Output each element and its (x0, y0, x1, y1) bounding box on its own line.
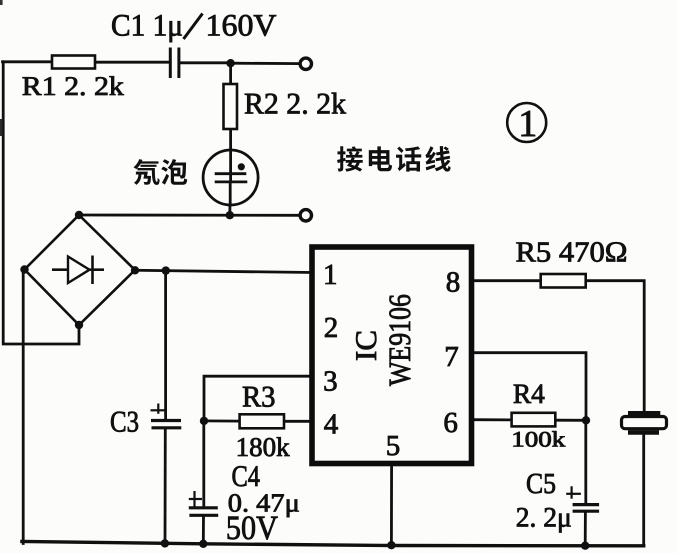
resistor R2 body (224, 84, 238, 129)
wire node D down to C4 (202, 421, 205, 507)
wire C5 to bottom rail (584, 512, 587, 546)
scan speck left margin (0, 119, 2, 136)
wire bridge top vertex to node B and lower terminal (79, 214, 300, 217)
junction dot rail at C4 (199, 540, 207, 548)
junction dot node C (pin1/C3) (162, 266, 170, 274)
wire R5 right to corner and down to microphone (586, 281, 645, 412)
svg-text:R5 470Ω: R5 470Ω (516, 237, 628, 269)
svg-text:5: 5 (386, 430, 401, 462)
terminal circle upper (phone line) (300, 58, 311, 69)
capacitor C5 plates and polarity (566, 486, 599, 511)
junction dot bridge left vertex (20, 265, 28, 273)
resistor R4 body (512, 413, 556, 427)
svg-text:IC: IC (350, 330, 383, 361)
junction dot rail at C3 (161, 539, 169, 547)
resistor R3 body (240, 414, 284, 428)
svg-text:2: 2 (324, 312, 339, 344)
svg-text:4: 4 (324, 409, 339, 441)
wire IC pin 7 right and down to node E (473, 353, 586, 421)
junction dot node E (R4/C5) (582, 416, 590, 424)
neon bulb symbol (203, 150, 258, 205)
wire R4 to node E (555, 419, 586, 422)
wire IC pin 3 left and down to node D (204, 376, 312, 421)
capacitor C1 label slash (184, 14, 203, 40)
svg-text:6: 6 (443, 407, 458, 439)
wire IC pin 8 to R5 (473, 279, 541, 282)
resistor R1 body (52, 56, 95, 69)
wire C4 to bottom rail (202, 517, 205, 544)
svg-text:1: 1 (323, 259, 338, 291)
junction dot node D (R3/C4) (200, 417, 208, 425)
svg-text:R3: R3 (242, 381, 276, 414)
svg-text:8: 8 (446, 266, 461, 298)
svg-text:C5: C5 (526, 468, 556, 500)
junction dot bridge top vertex (75, 211, 83, 219)
wire IC pin 5 to bottom rail (390, 461, 393, 546)
wire bridge right vertex to IC pin 1 (135, 270, 312, 272)
junction dot node A (C1/R2) (226, 59, 234, 67)
bridge rectifier diamond (25, 215, 136, 325)
wire neon bulb bottom to node B (228, 204, 231, 215)
svg-text:R2 2. 2k: R2 2. 2k (244, 88, 346, 121)
wire bottom ground rail (22, 541, 644, 545)
junction dot rail at pin5 (387, 541, 395, 549)
wire node C down to C3 (164, 271, 167, 420)
wire bridge left vertex down to bottom rail (22, 270, 25, 544)
wire R1 to C1 left plate (95, 61, 169, 64)
junction dot rail at C5 (581, 542, 589, 550)
junction dot node B (neon/line) (226, 211, 234, 219)
scan speck top-left corner (0, 0, 3, 5)
electret microphone / receiver symbol (622, 413, 667, 432)
wire R2 to neon bulb top (229, 129, 232, 151)
svg-text:R1 2. 2k: R1 2. 2k (22, 71, 125, 101)
wire C1 right plate to node A (180, 61, 231, 64)
terminal circle lower (phone line) (300, 210, 311, 221)
svg-text:7: 7 (444, 341, 459, 373)
svg-text:3: 3 (323, 366, 338, 398)
junction dot bridge right vertex (131, 266, 139, 274)
capacitor C1 plates (170, 48, 179, 79)
junction dot bridge bottom vertex (75, 321, 83, 329)
wire node A to top phone-line terminal (231, 62, 300, 65)
wire node A down to R2 (229, 63, 232, 84)
svg-text:1: 1 (518, 103, 537, 145)
svg-text:50V: 50V (226, 510, 278, 547)
capacitor C3 plates and polarity (151, 404, 182, 428)
svg-text:C3: C3 (110, 406, 139, 439)
neon bulb label (Chinese: neon bulb) (133, 159, 187, 185)
wire node D to R3 (204, 419, 240, 422)
wire C3 to bottom rail (164, 429, 167, 544)
wire IC pin 6 to R4 (473, 418, 512, 421)
wire node E down to C5 (584, 420, 587, 503)
capacitor C4 plates and polarity (189, 491, 218, 515)
resistor R5 body (541, 274, 586, 288)
svg-text:2. 2μ: 2. 2μ (516, 503, 572, 534)
svg-text:C1 1μ: C1 1μ (111, 8, 183, 43)
op-amp IC U1 WE9106 body (312, 247, 472, 464)
wire top rail from left edge to R1 (3, 60, 53, 63)
wire left rail down from R1 (3, 62, 79, 344)
svg-text:100k: 100k (511, 427, 565, 452)
wire R3 to IC pin 4 (284, 420, 312, 423)
svg-text:160V: 160V (206, 8, 278, 43)
figure number 1 in circle (507, 103, 546, 145)
phone line label (Chinese: connect telephone line) (337, 146, 451, 172)
wire microphone to bottom rail (642, 435, 645, 546)
svg-text:WE9106: WE9106 (382, 294, 417, 386)
svg-text:180k: 180k (236, 432, 291, 462)
svg-text:R4: R4 (513, 379, 545, 410)
